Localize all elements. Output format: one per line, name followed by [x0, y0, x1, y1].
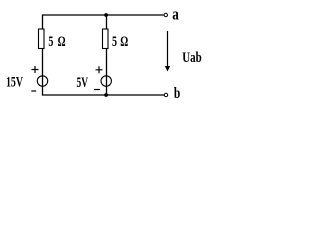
wire left branch vertical (x=42.5) [42, 15, 44, 96]
resistor R2 5 ohm (middle) [103, 29, 109, 49]
minus sign of 15V source [31, 90, 36, 92]
svg-text:5V: 5V [77, 75, 89, 91]
junction dot bottom (node of middle branch on bottom wire) [104, 93, 108, 97]
svg-text:Ω: Ω [120, 34, 128, 50]
svg-text:15V: 15V [6, 75, 23, 91]
wire bottom horizontal from left branch to terminal b [42, 94, 164, 96]
svg-text:Ω: Ω [58, 34, 66, 50]
svg-text:Uab: Uab [182, 50, 202, 66]
svg-text:5: 5 [112, 34, 117, 50]
wire top horizontal from left branch to terminal a [42, 14, 164, 16]
arrow Uab pointing down [167, 31, 169, 68]
svg-text:5: 5 [48, 34, 53, 50]
resistor R1 5 ohm (left) [39, 29, 45, 49]
minus sign of 5V source [94, 89, 100, 91]
plus sign of 5V source [96, 66, 103, 73]
svg-text:b: b [174, 85, 180, 102]
wire middle branch vertical (x=106.5) [106, 15, 108, 96]
svg-text:a: a [172, 5, 179, 24]
voltage source 5V circle [101, 76, 111, 86]
voltage source 15V circle [37, 76, 47, 86]
terminal b open circle [164, 93, 167, 96]
plus sign of 15V source [32, 66, 39, 73]
junction dot top (node of middle branch on top wire) [104, 13, 108, 17]
terminal a open circle [164, 13, 167, 16]
